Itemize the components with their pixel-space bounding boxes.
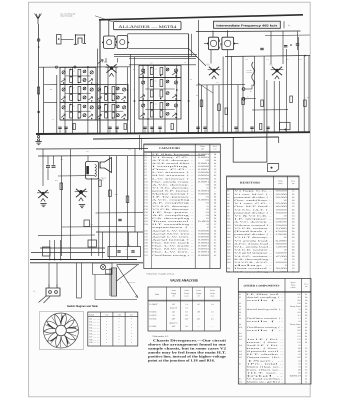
svg-text:0.1: 0.1 — [207, 186, 209, 189]
coil unit cluster C31 — [139, 78, 181, 101]
svg-text:0.0001: 0.0001 — [198, 168, 209, 171]
svg-text:D1: D1 — [305, 338, 307, 341]
svg-text:0.05: 0.05 — [206, 183, 209, 186]
svg-text:16*: 16* — [206, 223, 209, 226]
switch contact table — [88, 312, 138, 346]
components above earth bus — [58, 126, 61, 128]
svg-text:C1: C1 — [305, 317, 307, 320]
coil unit cluster C3 — [96, 85, 128, 103]
svg-text:R15: R15 — [227, 233, 230, 236]
aerial A1 — [35, 14, 42, 25]
svg-text:C29: C29 — [145, 242, 148, 245]
svg-text:D5: D5 — [214, 196, 216, 199]
svg-text:CAPACITORS: CAPACITORS — [159, 147, 181, 150]
svg-text:C1: C1 — [305, 350, 307, 353]
wire leader line — [95, 16, 128, 27]
svg-text:potential divider { ..: potential divider { .. — [234, 196, 273, 199]
svg-text:V4 6V6G: V4 6V6G — [149, 318, 157, 321]
svg-text:C26: C26 — [145, 232, 148, 235]
svg-text:tion: tion — [292, 182, 295, 185]
resistor R10 — [200, 100, 203, 107]
svg-text:50,000: 50,000 — [276, 193, 287, 196]
svg-text:C15: C15 — [145, 196, 148, 199]
svg-text:V1 osc. C.G. ..: V1 osc. C.G. .. — [234, 202, 273, 205]
IF transformer IFT2 secondary — [222, 37, 234, 50]
wire osc can loop to V2 grid — [128, 33, 189, 35]
svg-text:C28: C28 — [145, 238, 148, 241]
svg-text:—: — — [197, 326, 200, 328]
svg-text:A3: A3 — [214, 238, 216, 241]
svg-text:2.4: 2.4 — [211, 303, 213, 306]
svg-text:95: 95 — [173, 314, 175, 317]
svg-text:50,000: 50,000 — [276, 202, 287, 205]
svg-text:C4: C4 — [292, 242, 294, 245]
svg-text:delay ..: delay .. — [234, 264, 275, 267]
svg-text:CONTROL: CONTROL — [246, 72, 253, 74]
svg-text:0.00005: 0.00005 — [198, 171, 209, 174]
wire right of IF box — [283, 21, 285, 28]
svg-text:420: 420 — [298, 350, 301, 353]
coil unit cluster C29 — [139, 66, 181, 78]
svg-text:C5: C5 — [214, 165, 216, 168]
svg-text:Aerial L.W. trim. ..: Aerial L.W. trim. .. — [152, 235, 195, 238]
svg-text:250: 250 — [284, 236, 287, 239]
svg-text:(ohms): (ohms) — [291, 286, 296, 289]
wire AVC line upper — [114, 53, 197, 55]
svg-text:C2: C2 — [305, 359, 307, 362]
svg-text:150: 150 — [284, 249, 287, 252]
svg-text:A.F. coupling ..: A.F. coupling .. — [152, 202, 195, 205]
svg-text:D5: D5 — [214, 205, 216, 208]
svg-text:L5: L5 — [239, 308, 241, 311]
coil unit cluster C9 — [60, 102, 96, 120]
svg-text:C1: C1 — [145, 153, 147, 156]
junction dots gang — [142, 77, 144, 79]
svg-text:Very low: Very low — [290, 323, 302, 326]
wire HT bus thick — [30, 259, 137, 261]
resistor R18 — [304, 100, 307, 107]
svg-text:(μF): (μF) — [201, 147, 204, 150]
svg-text:potential divider { ..: potential divider { .. — [234, 211, 273, 214]
svg-text:tion: tion — [214, 147, 217, 150]
wire short stubs above cap table — [139, 135, 141, 150]
svg-text:0.3: 0.3 — [298, 365, 300, 368]
svg-text:B3: B3 — [214, 251, 216, 254]
svg-text:D4: D4 — [292, 218, 294, 221]
svg-text:H.T. choke ..: H.T. choke .. — [247, 353, 285, 356]
svg-text:(ohms): (ohms) — [278, 182, 283, 185]
svg-text:C₂₈: C₂₈ — [33, 290, 36, 293]
svg-text:L15: L15 — [239, 350, 242, 353]
svg-text:C20: C20 — [145, 211, 148, 214]
table RESISTORS — [227, 176, 299, 273]
svg-text:C5: C5 — [214, 171, 216, 174]
svg-text:50,000: 50,000 — [276, 196, 287, 199]
svg-text:B1: B1 — [305, 377, 307, 380]
svg-text:245: 245 — [172, 310, 175, 313]
svg-text:C30: C30 — [115, 245, 118, 247]
wire mains rail B — [31, 252, 105, 254]
svg-text:C4: C4 — [292, 264, 294, 267]
svg-text:1st I.F. { Pri. ..: 1st I.F. { Pri. .. — [247, 338, 285, 341]
wire top rail right branch — [196, 30, 301, 33]
svg-text:S4 — —: S4 — — — [89, 326, 100, 329]
svg-text:B3: B3 — [305, 308, 307, 311]
svg-text:C5: C5 — [214, 211, 216, 214]
wire aerial section top line — [39, 66, 131, 68]
svg-text:L10: L10 — [239, 326, 242, 329]
svg-text:capacitors { ..: capacitors { .. — [152, 226, 196, 229]
svg-text:3.2: 3.2 — [185, 307, 187, 310]
svg-text:D1: D1 — [305, 341, 307, 344]
svg-text:C1: C1 — [305, 356, 307, 359]
svg-text:B1: B1 — [305, 329, 307, 332]
svg-text:R26: R26 — [227, 270, 230, 273]
wire AVC line lower — [114, 56, 197, 58]
wire short vertical to osc can — [108, 20, 110, 36]
svg-text:D2: D2 — [214, 229, 216, 232]
svg-text:R25: R25 — [227, 267, 230, 270]
svg-text:C11: C11 — [145, 183, 148, 186]
svg-text:—: — — [210, 315, 213, 317]
valve V3 double diode triode — [209, 67, 219, 76]
output transformer T2 — [86, 162, 99, 180]
svg-text:R20: R20 — [227, 249, 230, 252]
svg-text:4,700,000: 4,700,000 — [276, 233, 287, 236]
valve V1 frequency changer — [106, 64, 116, 73]
wire drops below HT bus — [75, 263, 77, 298]
svg-text:R2: R2 — [227, 193, 229, 196]
svg-text:40,000: 40,000 — [276, 205, 287, 208]
svg-text:Tone control ..: Tone control .. — [152, 220, 195, 223]
svg-text:V3 anode load ..: V3 anode load .. — [234, 239, 273, 242]
svg-text:C2: C2 — [305, 323, 307, 326]
svg-text:S1 — —: S1 — — — [89, 318, 100, 321]
svg-text:B6: B6 — [214, 180, 216, 183]
resistor R16 — [290, 96, 293, 103]
svg-text:C.B. decoupling ..: C.B. decoupling .. — [152, 217, 195, 220]
svg-text:3.5: 3.5 — [298, 308, 300, 311]
svg-text:0.0001: 0.0001 — [198, 251, 209, 254]
svg-text:C24: C24 — [145, 223, 148, 226]
svg-text:8*: 8* — [207, 226, 209, 229]
svg-text:1.6: 1.6 — [211, 310, 213, 313]
svg-text:B5: B5 — [214, 174, 216, 177]
svg-text:C4: C4 — [292, 224, 294, 227]
svg-text:C7: C7 — [214, 223, 216, 226]
svg-text:V1 S.G. decoup. ..: V1 S.G. decoup. .. — [152, 186, 195, 189]
svg-text:C5: C5 — [292, 190, 294, 193]
svg-text:B2: B2 — [305, 305, 307, 308]
svg-text:V1 osc. M.W. { ..: V1 osc. M.W. { .. — [234, 193, 273, 196]
svg-text:PU: PU — [247, 97, 249, 99]
svg-text:D6: D6 — [214, 220, 216, 223]
svg-text:C7: C7 — [214, 226, 216, 229]
svg-text:L: L — [80, 80, 81, 82]
svg-text:D4: D4 — [214, 202, 216, 205]
svg-text:D4: D4 — [292, 236, 294, 239]
svg-text:Heat control ..: Heat control .. — [234, 267, 273, 270]
svg-text:H.T. smoothing ..: H.T. smoothing .. — [234, 270, 273, 273]
svg-text:Voltage: Voltage — [171, 292, 176, 295]
svg-text:Oscillator reaction { ..: Oscillator reaction { .. — [247, 317, 285, 320]
svg-text:S2 — —: S2 — — — [89, 321, 100, 324]
svg-text:Very low: Very low — [290, 305, 302, 308]
wire plug risers — [48, 263, 50, 284]
svg-text:R17: R17 — [227, 239, 230, 242]
svg-text:L7: L7 — [239, 314, 241, 317]
svg-text:C6: C6 — [214, 168, 216, 171]
svg-text:R13: R13 — [227, 227, 230, 230]
svg-text:coils { ..: coils { .. — [247, 320, 286, 323]
svg-text:300: 300 — [284, 199, 287, 202]
svg-text:V3 S.G. decoup. ..: V3 S.G. decoup. .. — [152, 205, 195, 208]
svg-text:C2: C2 — [305, 362, 307, 365]
svg-text:A.V.C. coupling ..: A.V.C. coupling .. — [152, 199, 195, 202]
svg-text:L: L — [80, 98, 81, 100]
svg-text:D1: D1 — [305, 335, 307, 338]
svg-text:TRANS FRAME: TRANS FRAME — [60, 15, 73, 18]
svg-text:26.5: 26.5 — [297, 299, 300, 302]
svg-text:2 M: 2 M — [117, 314, 120, 317]
svg-text:C4: C4 — [292, 261, 294, 264]
svg-text:0.005: 0.005 — [198, 220, 209, 223]
wire aerial down-lead — [38, 24, 40, 134]
svg-text:0.0005: 0.0005 — [198, 238, 209, 241]
svg-text:C6: C6 — [292, 205, 294, 208]
svg-text:L8: L8 — [239, 317, 241, 320]
svg-text:R19: R19 — [227, 246, 230, 249]
wire AF horizontals — [58, 175, 95, 177]
svg-text:{Pri., total ..: {Pri., total .. — [247, 362, 286, 365]
svg-text:D4: D4 — [292, 255, 294, 258]
svg-text:L13: L13 — [239, 338, 242, 341]
wire AVC line third — [129, 57, 196, 59]
svg-text:V1 hept. C.G. ..: V1 hept. C.G. .. — [234, 190, 273, 193]
svg-text:C21: C21 — [145, 214, 148, 217]
svg-text:S7 — —: S7 — — — [89, 335, 100, 338]
svg-text:R₁₉: R₁₉ — [288, 24, 291, 27]
svg-text:C25: C25 — [145, 229, 148, 232]
resistor R24 — [109, 190, 112, 197]
resistor R12 — [218, 104, 221, 111]
svg-text:R8: R8 — [227, 211, 229, 214]
svg-text:C2: C2 — [305, 347, 307, 350]
resistor R13 — [225, 108, 228, 115]
gram pickup sockets — [242, 88, 245, 91]
svg-text:Aerial tuning coils { ..: Aerial tuning coils { .. — [247, 308, 285, 311]
svg-text:B1: B1 — [305, 302, 307, 305]
svg-text:B3: B3 — [214, 248, 216, 251]
svg-text:D5: D5 — [214, 217, 216, 220]
svg-text:Loca-: Loca- — [304, 282, 308, 285]
svg-text:8.5: 8.5 — [185, 310, 187, 313]
svg-text:Valve: Valve — [155, 293, 159, 296]
svg-text:380: 380 — [298, 347, 301, 350]
svg-text:A4: A4 — [214, 162, 216, 165]
svg-text:D3: D3 — [214, 235, 216, 238]
svg-text:Osc. C.G. ..: Osc. C.G. .. — [152, 168, 196, 171]
svg-text:600.0: 600.0 — [290, 374, 301, 377]
speaker transformer tap box — [268, 164, 279, 172]
svg-text:L12: L12 — [239, 335, 242, 338]
svg-text:0.0002: 0.0002 — [198, 156, 209, 159]
svg-text:V3 C.B. resistor ..: V3 C.B. resistor .. — [234, 227, 273, 230]
svg-text:0.2: 0.2 — [298, 362, 300, 365]
svg-text:245: 245 — [197, 318, 200, 321]
svg-text:0.0003: 0.0003 — [198, 153, 209, 156]
svg-text:34.0: 34.0 — [185, 318, 188, 321]
svg-text:C4: C4 — [292, 267, 294, 270]
svg-text:0.0001: 0.0001 — [198, 245, 209, 248]
svg-text:4.5: 4.5 — [211, 318, 213, 321]
svg-text:Marker tuning † ..: Marker tuning † .. — [152, 193, 195, 196]
svg-text:Aerial tuning † ..: Aerial tuning † .. — [152, 238, 195, 241]
resistor R26b — [126, 196, 129, 203]
svg-text:V2 6K7G: V2 6K7G — [149, 310, 157, 313]
svg-text:V1 & V2 C.B. ..: V1 & V2 C.B. .. — [234, 215, 273, 218]
wire main left vertical — [99, 20, 101, 134]
svg-text:D4: D4 — [214, 214, 216, 217]
svg-text:R23: R23 — [227, 258, 230, 261]
svg-text:Output trans. {Pri. ..: Output trans. {Pri. .. — [247, 356, 285, 359]
svg-text:V2 S.G. {A.T. { ..: V2 S.G. {A.T. { .. — [234, 208, 273, 211]
svg-text:A.V.C. decoup. ..: A.V.C. decoup. .. — [152, 183, 195, 186]
svg-text:500,000: 500,000 — [276, 218, 287, 221]
svg-text:L: L — [163, 96, 164, 98]
svg-text:A1: A1 — [305, 293, 307, 296]
svg-text:S8 — —: S8 — — — [89, 338, 100, 341]
svg-text:Oscillator tuning † ..: Oscillator tuning † .. — [152, 254, 195, 257]
svg-text:trans. { Sec. ..: trans. { Sec. .. — [247, 347, 285, 350]
capacitor C21 decoupling — [296, 43, 299, 45]
svg-text:R1: R1 — [227, 190, 229, 193]
svg-text:H.T. smoothing ..: H.T. smoothing .. — [152, 223, 195, 226]
wire screen rail thick — [188, 34, 190, 134]
svg-text:V4 S.G. resistor ..: V4 S.G. resistor .. — [234, 255, 273, 258]
svg-text:L: L — [163, 115, 164, 117]
svg-text:VOLUME: VOLUME — [246, 70, 252, 72]
wire tone branch — [252, 109, 288, 111]
svg-text:Aerial coupling { ..: Aerial coupling { .. — [247, 296, 285, 299]
fuse box — [106, 270, 112, 275]
svg-text:OTHER COMPONENTS: OTHER COMPONENTS — [244, 285, 281, 288]
svg-text:S6 — —: S6 — — — [89, 332, 100, 335]
coil unit cluster C5 — [60, 67, 96, 84]
svg-text:Osc. L.W. trim. ..: Osc. L.W. trim. .. — [152, 251, 195, 254]
dial lamp loop — [93, 263, 112, 275]
wire rails right of screen — [190, 34, 192, 56]
svg-text:247: 247 — [172, 303, 175, 306]
svg-text:1,200,000: 1,200,000 — [276, 246, 287, 249]
svg-text:0.0001: 0.0001 — [198, 162, 209, 165]
connector circles on line — [55, 66, 57, 68]
svg-text:total ..: total .. — [247, 374, 288, 377]
svg-text:80: 80 — [198, 303, 200, 306]
resistor R14 — [242, 98, 245, 105]
svg-text:Intermediate Frequency 465 kc/: Intermediate Frequency 465 kc/s — [216, 25, 278, 28]
svg-text:L6: L6 — [239, 311, 241, 314]
svg-text:R10: R10 — [227, 218, 230, 221]
svg-text:(mA): (mA) — [211, 294, 215, 297]
svg-text:2.5: 2.5 — [298, 344, 300, 347]
svg-text:I.F. filter bypass ..: I.F. filter bypass .. — [152, 153, 195, 156]
svg-text:point at the junction of L18 a: point at the junction of L18 and R16. — [148, 359, 215, 363]
svg-text:ALLANDER — M6T04: ALLANDER — M6T04 — [118, 25, 176, 29]
svg-text:13.5: 13.5 — [297, 338, 300, 341]
svg-text:C2: C2 — [305, 365, 307, 368]
wire mid-right horizontal — [225, 56, 310, 57]
switch arrow at gang right — [98, 59, 103, 63]
svg-text:D3: D3 — [214, 232, 216, 235]
svg-text:C19: C19 — [145, 208, 148, 211]
svg-text:tion: tion — [305, 285, 308, 288]
svg-text:W.L. anode load ..: W.L. anode load .. — [234, 246, 273, 249]
svg-text:R16: R16 — [227, 236, 230, 239]
svg-text:0.0003: 0.0003 — [198, 190, 209, 193]
svg-text:L: L — [114, 116, 115, 118]
svg-text:340,000: 340,000 — [276, 252, 287, 255]
IF transformer IFT2 primary — [209, 37, 219, 50]
svg-text:C12: C12 — [145, 186, 148, 189]
mains plug — [46, 284, 60, 296]
svg-text:C10: C10 — [145, 180, 148, 183]
svg-text:L14: L14 — [239, 344, 242, 347]
svg-text:L: L — [80, 116, 81, 118]
svg-text:C7: C7 — [145, 171, 147, 174]
svg-text:0.0005: 0.0005 — [198, 254, 209, 257]
svg-text:B2: B2 — [305, 314, 307, 317]
svg-text:13.5: 13.5 — [297, 332, 300, 335]
svg-text:B4: B4 — [292, 199, 294, 202]
valve V5 output pentode — [76, 189, 86, 198]
svg-text:R18: R18 — [227, 242, 230, 245]
wire V3 grid diagonal — [189, 49, 206, 66]
wire heater rail — [96, 231, 143, 233]
svg-text:(osc) 110: (osc) 110 — [170, 307, 177, 310]
svg-text:13.0: 13.0 — [297, 293, 300, 296]
junction dots mains — [49, 259, 51, 261]
aerial coupling plug — [37, 39, 40, 42]
svg-text:0.00005: 0.00005 — [198, 177, 209, 180]
svg-text:L16: L16 — [239, 353, 242, 356]
svg-text:D4: D4 — [292, 211, 294, 214]
wire HT loop below bus — [233, 133, 267, 162]
wire AF vertical rails — [42, 149, 44, 186]
svg-text:M.W. trimmer † ..: M.W. trimmer † .. — [152, 174, 195, 177]
wire IF stage rails — [201, 85, 203, 133]
svg-text:D4: D4 — [214, 199, 216, 202]
wire right branch — [117, 264, 139, 266]
svg-text:C4: C4 — [292, 270, 294, 273]
capacitor C19 — [260, 47, 263, 49]
svg-text:D4: D4 — [292, 227, 294, 230]
wire transformer bottom tie — [95, 299, 137, 301]
svg-text:Oscillator tuning { ..: Oscillator tuning { .. — [247, 326, 285, 329]
capacitor C22 — [284, 45, 287, 47]
wire top-right second horizontal — [265, 34, 310, 37]
wire AF rail 2 — [38, 154, 205, 157]
svg-text:D5: D5 — [214, 208, 216, 211]
svg-text:D1: D1 — [305, 332, 307, 335]
svg-text:L4: L4 — [239, 305, 241, 308]
coil unit cluster C7 — [60, 85, 96, 103]
svg-text:—: — — [304, 345, 307, 347]
pilot lamp L — [101, 265, 106, 270]
svg-text:0.01: 0.01 — [206, 202, 209, 205]
svg-text:C9: C9 — [145, 177, 147, 180]
svg-text:D5: D5 — [214, 183, 216, 186]
